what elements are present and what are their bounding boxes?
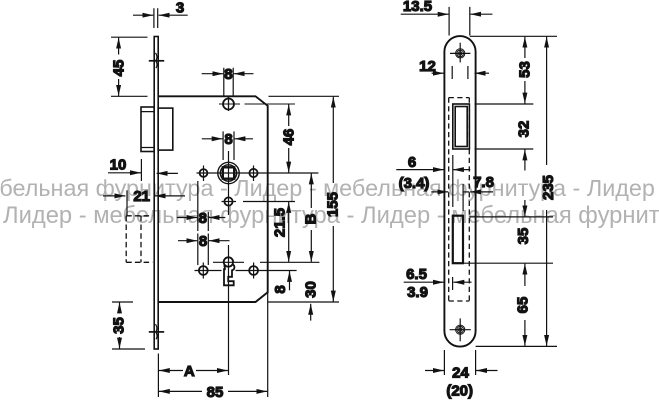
spindle square 8mm <box>223 167 234 178</box>
svg-text:65: 65 <box>515 297 532 314</box>
dimension 3 (faceplate thickness) <box>133 8 188 28</box>
dimension 85 (body depth) <box>159 291 268 397</box>
svg-text:30: 30 <box>303 281 320 298</box>
hole below spindle centerline y=201.5 <box>222 201 296 203</box>
dimension 46 <box>288 104 290 172</box>
right side extension lines <box>463 36 557 346</box>
dimension A (backset) <box>158 354 228 398</box>
svg-text:53: 53 <box>516 61 533 78</box>
hole left of spindle <box>200 169 208 177</box>
svg-text:8: 8 <box>199 233 207 250</box>
horizontal centerline y=173 <box>197 172 319 174</box>
dimension 8 row four <box>178 234 230 266</box>
dimension 8 top (above top hole) <box>202 68 254 97</box>
deadbolt thrown (dashed) <box>126 216 152 262</box>
bottom holes centerline y=270.5 <box>195 270 297 272</box>
svg-text:24: 24 <box>452 365 469 382</box>
svg-text:6: 6 <box>408 154 416 171</box>
svg-text:35: 35 <box>515 228 532 245</box>
latch head <box>141 107 154 152</box>
dimension 12 <box>432 66 489 79</box>
faceplate break mark bottom <box>149 331 164 333</box>
svg-text:(3.4): (3.4) <box>399 175 430 192</box>
svg-text:8: 8 <box>224 66 232 83</box>
dimension 8 right column <box>289 271 291 290</box>
svg-text:45: 45 <box>111 60 128 77</box>
vertical centerline through spindle/keyhole <box>228 97 230 375</box>
dimension 6 / (3.4) <box>396 155 470 207</box>
svg-text:(20): (20) <box>446 383 473 400</box>
svg-text:46: 46 <box>281 129 298 146</box>
dimension 45 (left top) <box>111 37 148 96</box>
svg-text:235: 235 <box>540 175 557 200</box>
dimension 32 <box>524 149 526 170</box>
dimension 8 above spindle <box>202 131 253 160</box>
svg-text:13.5: 13.5 <box>403 0 432 15</box>
dimension 65 <box>524 264 526 346</box>
dimension 7.8 <box>463 184 493 211</box>
dimension 155 <box>332 97 334 302</box>
dimension B <box>310 173 312 262</box>
svg-text:12: 12 <box>419 58 436 75</box>
hole below spindle <box>224 197 232 205</box>
svg-text:10: 10 <box>110 157 127 174</box>
dimension 235 <box>546 37 548 346</box>
dimension 6.5 / 3.9 <box>404 277 472 290</box>
bottom left hole <box>199 266 208 275</box>
dimension 21 (deadbolt throw) <box>103 190 185 215</box>
latch window <box>453 104 470 149</box>
svg-text:3: 3 <box>176 0 184 17</box>
svg-text:8: 8 <box>272 285 289 293</box>
lock body outline <box>158 96 268 302</box>
faceplate stadium outline <box>444 36 475 346</box>
dimension 53 <box>524 37 526 104</box>
latch tail <box>158 108 173 150</box>
svg-text:A: A <box>184 363 195 380</box>
dimension 13.5 <box>401 7 493 36</box>
top screw hole <box>456 49 465 58</box>
right extension lines of left view <box>268 96 339 302</box>
dimension 21.5 <box>288 202 290 262</box>
bottom right hole <box>249 266 258 275</box>
svg-text:7.8: 7.8 <box>473 174 494 191</box>
svg-text:155: 155 <box>325 192 342 217</box>
hole right of spindle <box>249 169 257 177</box>
keyhole <box>224 257 233 266</box>
svg-text:8: 8 <box>224 131 232 148</box>
svg-text:3.9: 3.9 <box>407 284 428 301</box>
dimension 30 <box>310 304 312 321</box>
svg-text:6.5: 6.5 <box>406 266 427 283</box>
bottom screw hole <box>456 325 465 334</box>
faceplate (side view) <box>154 37 158 350</box>
deadbolt window <box>453 216 463 264</box>
svg-text:21.5: 21.5 <box>272 208 289 237</box>
svg-text:8: 8 <box>199 210 207 227</box>
dimension 35 (left bottom) <box>112 302 145 349</box>
dimension 24 / (20) <box>425 350 498 375</box>
dimension 35 <box>524 200 526 217</box>
spindle hub U-shaped follower <box>218 162 239 183</box>
faceplate break mark top <box>149 60 164 62</box>
dimension 10 (latch protrusion) <box>108 159 178 181</box>
svg-text:85: 85 <box>207 384 224 400</box>
svg-text:21: 21 <box>133 188 150 205</box>
keyhole centerline y=262.3 <box>213 261 319 263</box>
svg-text:B: B <box>302 213 319 224</box>
svg-text:32: 32 <box>516 121 533 138</box>
top hole <box>223 99 234 110</box>
dimension 8 row three <box>177 181 225 231</box>
lock case hidden outline (dashed) <box>449 98 470 301</box>
svg-text:35: 35 <box>111 317 128 334</box>
